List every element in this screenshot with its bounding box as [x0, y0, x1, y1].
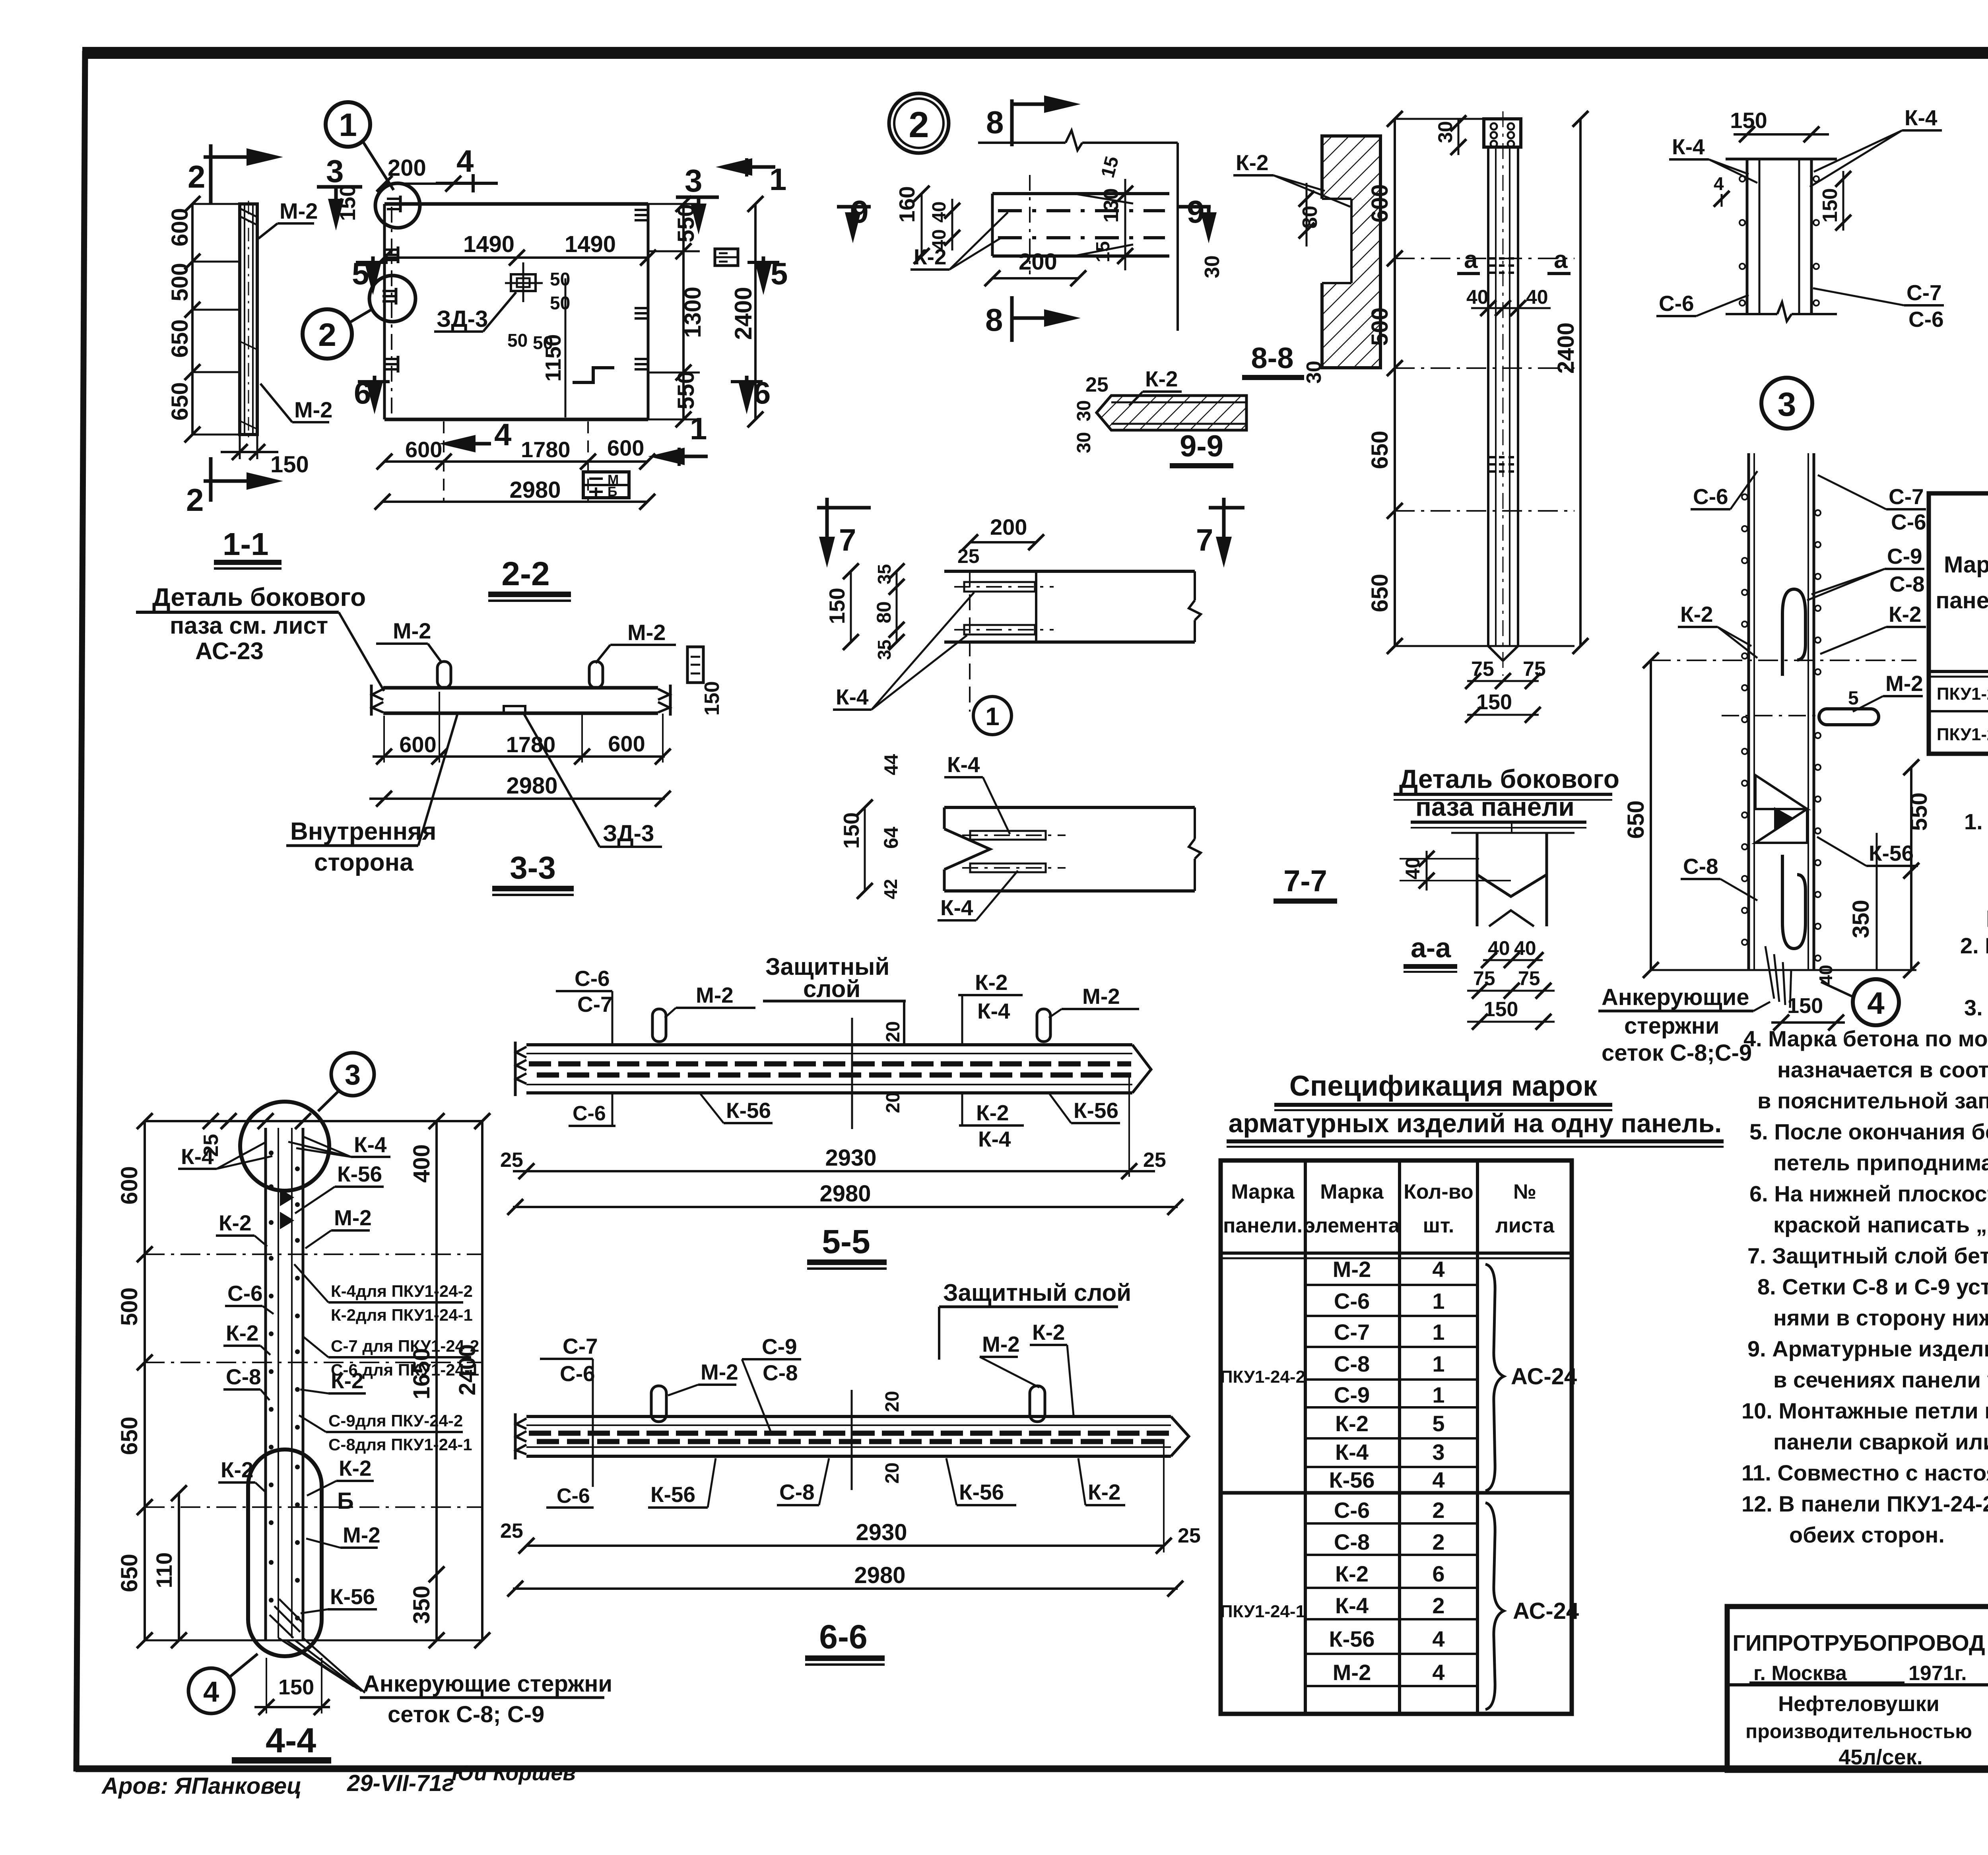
view 3-3 flag — [687, 647, 703, 683]
svg-text:45л/сек.: 45л/сек. — [1839, 1745, 1922, 1769]
view 4 centerline at loop — [1722, 715, 1819, 716]
title block left cell — [1727, 1630, 1988, 1769]
view 3-3 lifting loops M-2 — [437, 662, 451, 688]
section mark 6 left — [354, 375, 390, 414]
svg-text:4: 4 — [1432, 1660, 1444, 1685]
detail 3 dim 4 small — [1714, 173, 1730, 207]
svg-text:9. Арматурные изделия, расп: 9. Арматурные изделия, располагаемые в о… — [1747, 1336, 1988, 1361]
svg-text:500: 500 — [167, 263, 193, 301]
svg-text:3: 3 — [326, 153, 344, 189]
svg-text:К-2: К-2 — [1889, 602, 1921, 627]
svg-text:4: 4 — [1432, 1626, 1444, 1651]
svg-text:К-2: К-2 — [1145, 367, 1178, 391]
view 2-2 label ZD-3 — [434, 292, 516, 332]
svg-text:2930: 2930 — [856, 1519, 907, 1545]
svg-text:40: 40 — [929, 202, 950, 223]
svg-text:К-2: К-2 — [1236, 150, 1268, 175]
svg-text:С-6: С-6 — [1908, 307, 1944, 332]
svg-text:М-2: М-2 — [696, 983, 734, 1007]
svg-text:К-56: К-56 — [1329, 1467, 1375, 1492]
spec table brace group1 — [1485, 1264, 1504, 1491]
signatures — [101, 1761, 576, 1799]
view 6-6 labels below K-56 S-8 K-56 K-2 — [648, 1458, 716, 1508]
svg-text:6: 6 — [1432, 1561, 1444, 1586]
svg-text:паза панели: паза панели — [1415, 792, 1574, 821]
detail 3 label K-4 left — [1669, 134, 1757, 183]
svg-text:2: 2 — [188, 159, 206, 194]
view 4-4 label S-8 left — [223, 1364, 270, 1400]
view 3-3 label vnutrennyaya storona — [286, 715, 457, 876]
view 3-3 label M-2 right — [596, 620, 676, 663]
view 1-1 title — [214, 526, 282, 570]
svg-text:С-9: С-9 — [762, 1334, 797, 1359]
svg-text:в пояснительной записке.: в пояснительной записке. — [1757, 1088, 1988, 1113]
svg-text:Защитный слой: Защитный слой — [943, 1279, 1131, 1306]
view 4-4 label ankeruyushchie sterzhni — [360, 1671, 612, 1727]
svg-text:С-7: С-7 — [577, 992, 613, 1017]
svg-text:600: 600 — [167, 208, 193, 246]
callout circle 2 big double — [889, 93, 949, 153]
view 3-3 title — [492, 850, 574, 896]
view 3-3 heading detail bokovogo paza — [136, 583, 384, 691]
section mark 2 top — [188, 144, 283, 204]
svg-text:К-2: К-2 — [226, 1321, 258, 1345]
svg-text:К-56: К-56 — [726, 1098, 771, 1123]
svg-text:К-4: К-4 — [181, 1144, 214, 1169]
svg-text:АС-24: АС-24 — [1513, 1598, 1579, 1624]
svg-text:Марка: Марка — [1320, 1180, 1384, 1203]
view 4 dims 550 350 right — [1848, 759, 1932, 978]
svg-text:3-3: 3-3 — [510, 850, 556, 885]
view 4-4 label K-2 right 3 — [307, 1456, 374, 1496]
svg-text:1: 1 — [1432, 1288, 1444, 1314]
svg-text:обеих сторон.: обеих сторон. — [1789, 1522, 1945, 1547]
view 6-6 label M-2 right — [980, 1332, 1039, 1387]
svg-text:5-5: 5-5 — [822, 1223, 870, 1260]
svg-text:4: 4 — [1432, 1257, 1444, 1282]
callout circle 2 — [303, 309, 371, 359]
svg-text:8-8: 8-8 — [1251, 342, 1294, 374]
view 6-6 bar — [515, 1413, 1189, 1459]
svg-text:4-4: 4-4 — [266, 1721, 316, 1760]
view 5-5 lifting loops — [652, 1009, 666, 1042]
section mark 3 top-right — [676, 163, 719, 235]
svg-text:а: а — [1464, 246, 1478, 274]
center panel a dim 2400 — [1553, 111, 1588, 654]
view 1-1 bottom dim 150 — [221, 435, 309, 477]
svg-text:6-6: 6-6 — [819, 1618, 867, 1655]
svg-text:600: 600 — [1367, 184, 1393, 223]
view 4-4 label M-2 right — [305, 1205, 372, 1248]
svg-text:М-2: М-2 — [280, 198, 318, 223]
svg-text:150: 150 — [839, 812, 864, 849]
detail 3 label K-4 right — [1810, 105, 1942, 187]
view 4-4 panel strip — [266, 1128, 303, 1640]
spec table header — [1223, 1180, 1555, 1237]
svg-text:3: 3 — [1432, 1440, 1444, 1465]
view 4 labels S-9 S-8 — [1807, 544, 1925, 600]
svg-text:350: 350 — [1848, 900, 1874, 938]
view 4 label K-2 left — [1678, 602, 1757, 658]
svg-text:3: 3 — [345, 1059, 361, 1091]
svg-text:С-9: С-9 — [1334, 1382, 1370, 1407]
detail 7-7 label K-4 bottom — [938, 871, 1018, 920]
svg-text:С-8: С-8 — [1334, 1529, 1370, 1554]
view 2-2 flag box — [583, 472, 629, 499]
detail groove title a-a — [1404, 932, 1457, 973]
svg-text:С-6: С-6 — [1659, 291, 1694, 316]
view 2-2 dim 2980 — [375, 477, 655, 510]
svg-text:1: 1 — [690, 411, 707, 446]
svg-text:М-2: М-2 — [334, 1205, 372, 1230]
view 1-1 panel strip — [240, 201, 257, 437]
svg-text:600: 600 — [608, 731, 645, 756]
svg-text:К-2: К-2 — [976, 1100, 1009, 1125]
svg-text:2: 2 — [1432, 1593, 1444, 1618]
svg-text:М-2: М-2 — [982, 1332, 1020, 1356]
view 4-4 dim 2400 — [454, 1113, 490, 1648]
view 4 dim 650 left — [1623, 652, 1916, 978]
view 4-4 label S-7 dlya PKU — [302, 1336, 479, 1379]
svg-text:С-7: С-7 — [1334, 1319, 1370, 1345]
view 6-6 label K-2 upper — [1030, 1320, 1074, 1415]
view 4-4 callout circle 3 — [318, 1053, 374, 1111]
svg-text:С-6: С-6 — [557, 1484, 590, 1508]
detail 8-8 dims left 160 40 40 — [895, 186, 960, 264]
svg-text:650: 650 — [1367, 431, 1393, 469]
svg-text:сеток С-8; С-9: сеток С-8; С-9 — [388, 1702, 544, 1727]
view 4 labels S-7 S-6 top-right — [1818, 475, 1926, 534]
svg-text:Деталь бокового: Деталь бокового — [1399, 764, 1619, 794]
svg-text:650: 650 — [116, 1416, 142, 1455]
svg-text:М-2: М-2 — [294, 397, 332, 422]
svg-text:К-2: К-2 — [219, 1211, 251, 1235]
svg-text:панели.: панели. — [1936, 588, 1988, 613]
svg-text:С-6: С-6 — [1891, 510, 1926, 534]
svg-text:1: 1 — [985, 702, 1000, 731]
border frame left line — [76, 51, 85, 1772]
svg-text:С-6: С-6 — [1334, 1498, 1370, 1523]
view 4-4 label K-4 dlya PKU1-24-2 — [294, 1264, 473, 1324]
section mark 9 right — [1177, 194, 1217, 243]
svg-text:650: 650 — [1367, 574, 1393, 612]
view 2-2 dim 1150 — [541, 278, 565, 417]
view 4 tall panel rails — [1742, 453, 1821, 970]
detail 8-8 dim 200 — [984, 249, 1086, 286]
view 5-5 dim 2980 — [507, 1181, 1183, 1215]
svg-text:2980: 2980 — [854, 1562, 905, 1588]
view 4-4 dim 110 — [151, 1485, 187, 1648]
view 2-2 dim 1490 1490 — [377, 231, 656, 266]
svg-text:600: 600 — [399, 732, 436, 757]
svg-text:Внутренняя: Внутренняя — [290, 818, 436, 845]
svg-text:150: 150 — [825, 588, 849, 624]
svg-text:3: 3 — [685, 163, 703, 198]
spec table grid — [1221, 1160, 1572, 1714]
svg-text:арматурных изделий на одну: арматурных изделий на одну панель. — [1229, 1108, 1722, 1138]
center panel a bottom dims 75 75 150 — [1465, 658, 1546, 723]
svg-text:назначается в соответствии: назначается в соответствии с указаниями … — [1777, 1057, 1988, 1082]
svg-text:М-2: М-2 — [393, 618, 431, 643]
svg-text:а-а: а-а — [1411, 932, 1451, 963]
section mark 7 left — [817, 498, 871, 568]
detail 3 labels S-7 S-6 right — [1813, 280, 1944, 332]
svg-text:42: 42 — [880, 879, 901, 899]
svg-text:40: 40 — [1815, 965, 1836, 985]
section mark 1 top-right — [716, 158, 786, 197]
svg-text:29-VII-71г: 29-VII-71г — [347, 1770, 454, 1796]
svg-text:С-9для ПКУ-24-2: С-9для ПКУ-24-2 — [328, 1411, 463, 1430]
svg-text:10. Монтажные петли прихваты: 10. Монтажные петли прихватываются к вер… — [1741, 1398, 1988, 1423]
svg-text:ЗД-3: ЗД-3 — [437, 306, 488, 332]
view 2-2 step symbol — [573, 368, 614, 382]
svg-text:500: 500 — [1367, 307, 1393, 346]
view 5-5 label M-2 left — [665, 983, 755, 1018]
svg-text:К-56: К-56 — [330, 1584, 375, 1609]
svg-text:20: 20 — [883, 1092, 904, 1113]
svg-text:К-4: К-4 — [1905, 105, 1938, 130]
svg-text:35: 35 — [874, 564, 895, 584]
svg-text:листа: листа — [1495, 1214, 1555, 1237]
svg-text:М-2: М-2 — [1082, 984, 1120, 1009]
svg-text:650: 650 — [116, 1554, 142, 1592]
view 2-2 right dim chain 550 1300 550 — [648, 196, 706, 427]
svg-text:9: 9 — [1187, 194, 1205, 229]
section mark 3 top-left — [317, 153, 362, 231]
svg-text:30: 30 — [1074, 432, 1095, 453]
view 5-5 label M-2 right — [1049, 984, 1139, 1018]
section 8-8 strip label K-2 — [1233, 150, 1350, 207]
svg-text:2: 2 — [186, 482, 204, 518]
view 4-4 label K-2 left 3 — [218, 1457, 266, 1493]
center panel a body — [1488, 111, 1518, 676]
svg-text:нями в сторону нижнего: нями в сторону нижнего торца панели. — [1773, 1305, 1988, 1330]
svg-text:слой: слой — [803, 976, 860, 1002]
svg-text:Аров: ЯПанковец: Аров: ЯПанковец — [101, 1773, 302, 1799]
view 4-4 anchor fan — [278, 1638, 365, 1693]
svg-text:С-8: С-8 — [1334, 1351, 1370, 1376]
view 6-6 title — [805, 1618, 885, 1666]
svg-text:Марка: Марка — [1231, 1180, 1295, 1203]
svg-text:50: 50 — [550, 293, 570, 313]
title 9-9 — [1170, 429, 1233, 468]
view 2-2 panel outline — [384, 204, 648, 419]
svg-text:АС-24: АС-24 — [1511, 1364, 1577, 1389]
svg-text:К-56: К-56 — [650, 1482, 695, 1507]
svg-text:К-2: К-2 — [221, 1457, 253, 1482]
detail groove dims 40 40 75 75 150 — [1467, 937, 1555, 1030]
svg-text:ПКУ1-24-2: ПКУ1-24-2 — [1220, 1367, 1305, 1387]
section mark 8 top — [986, 95, 1081, 146]
view 2-2 groove symbols — [384, 246, 398, 263]
svg-text:1780: 1780 — [521, 437, 571, 462]
svg-text:М-2: М-2 — [701, 1360, 738, 1384]
svg-text:петель приподнимаются и пове: петель приподнимаются и поверхность бето… — [1773, 1150, 1988, 1175]
table vyborka grid — [1929, 493, 1988, 754]
view 5-5 label K-2 K-4 lower — [959, 1094, 1024, 1151]
svg-text:130: 130 — [1100, 188, 1123, 223]
svg-text:1300: 1300 — [680, 287, 706, 338]
svg-text:1: 1 — [1432, 1382, 1444, 1407]
svg-text:1: 1 — [1432, 1351, 1444, 1376]
svg-text:40: 40 — [1488, 937, 1510, 959]
svg-text:панели.: панели. — [1223, 1214, 1303, 1237]
center panel a top plate — [1484, 119, 1521, 147]
view 4 upper hook — [1782, 589, 1806, 676]
svg-text:2: 2 — [1432, 1529, 1444, 1554]
section mark 7 right — [1196, 498, 1244, 568]
svg-text:С-6: С-6 — [1693, 484, 1728, 509]
view 6-6 dim 2980 — [507, 1562, 1183, 1597]
detail 8-8 label K-2 — [911, 212, 1008, 270]
svg-text:К-2для ПКУ1-24-1: К-2для ПКУ1-24-1 — [331, 1306, 473, 1324]
section mark 8 bottom — [985, 296, 1081, 342]
view 3-3 dim 600 1780 600 — [373, 692, 671, 765]
view 4 truss braces — [1755, 775, 1807, 843]
view 3-3 label ZD-3 — [524, 714, 662, 847]
svg-text:25: 25 — [957, 545, 980, 567]
svg-text:а: а — [1554, 246, 1568, 274]
view 4-4 label K-2 left — [216, 1211, 267, 1246]
svg-text:25: 25 — [500, 1519, 523, 1543]
svg-text:64: 64 — [880, 827, 902, 849]
svg-text:150: 150 — [278, 1675, 314, 1699]
svg-text:2980: 2980 — [819, 1181, 871, 1207]
view 4-4 left dim chain — [116, 1113, 482, 1648]
view 6-6 label S-9 S-8 — [742, 1334, 801, 1431]
svg-text:4: 4 — [456, 144, 474, 179]
svg-text:К-2: К-2 — [339, 1456, 371, 1481]
svg-text:рению Гасстроем СССР в 19: рению Гасстроем СССР в 1971 году. — [1986, 902, 1988, 927]
svg-text:600: 600 — [405, 437, 442, 462]
svg-text:К-2: К-2 — [1335, 1411, 1369, 1436]
svg-text:150: 150 — [335, 184, 360, 221]
view 6-6 lifting loops — [651, 1386, 666, 1422]
svg-text:3. Закладную деталь марки ЗД-: 3. Закладную деталь марки ЗД-3 см. на ли… — [1964, 995, 1988, 1020]
svg-text:К-2: К-2 — [1088, 1480, 1120, 1504]
view 2-2 flag box 2 — [715, 249, 738, 266]
view 4-4 capsule detail outline — [248, 1449, 322, 1656]
svg-text:7-7: 7-7 — [1283, 864, 1327, 898]
svg-text:200: 200 — [388, 155, 426, 181]
svg-text:К-2: К-2 — [1680, 602, 1713, 627]
svg-text:К-2: К-2 — [975, 970, 1008, 995]
view 4-4 label M-2 right 2 — [306, 1523, 381, 1548]
svg-text:50: 50 — [550, 269, 570, 289]
svg-text:150: 150 — [701, 681, 724, 716]
view 5-5 label K-56 left — [701, 1094, 773, 1123]
view 4 label S-8 lower-left — [1681, 854, 1757, 900]
svg-text:150: 150 — [1730, 108, 1767, 133]
detail 3 posts — [1726, 159, 1837, 321]
svg-text:ПКУ1-24-2: ПКУ1-24-2 — [1937, 684, 1988, 704]
callout circle 1 — [326, 102, 394, 190]
view 6-6 label zashchitny sloy — [939, 1279, 1131, 1360]
svg-text:панели сваркой или привязы: панели сваркой или привязываются проволо… — [1773, 1429, 1988, 1454]
svg-text:шт.: шт. — [1423, 1214, 1454, 1237]
section 8-8 strip dims — [1201, 183, 1326, 384]
callout circle 4 right — [1821, 979, 1899, 1025]
svg-text:К-56: К-56 — [1329, 1626, 1375, 1651]
svg-text:АС-23: АС-23 — [195, 638, 264, 664]
view 5-5 title — [807, 1223, 887, 1270]
section mark 1 bottom-right — [648, 411, 708, 466]
view 6-6 labels S-7 S-6 left end — [540, 1334, 598, 1508]
section mark 5 left — [352, 256, 388, 295]
svg-text:К-2: К-2 — [914, 244, 946, 269]
svg-text:550: 550 — [673, 371, 699, 409]
detail 7-7 label K-4 — [833, 592, 974, 710]
svg-text:3: 3 — [1778, 386, 1796, 423]
svg-text:550: 550 — [1906, 792, 1932, 831]
view 5-5 label K-56 right — [1050, 1094, 1120, 1123]
svg-text:С-7: С-7 — [1906, 280, 1942, 305]
svg-text:в сечениях панели услов: в сечениях панели условно раздвинуты. — [1773, 1367, 1988, 1392]
view 5-5 dim 2930 — [500, 1073, 1166, 1179]
svg-text:1971г.: 1971г. — [1908, 1662, 1967, 1685]
view 5-5 label K-2 K-4 upper — [958, 970, 1023, 1044]
view 4 lower hook — [1782, 855, 1806, 949]
svg-text:Анкерующие: Анкерующие — [1602, 984, 1749, 1010]
spec table brace group2 — [1485, 1503, 1504, 1709]
svg-text:ПКУ1-24-1: ПКУ1-24-1 — [1220, 1602, 1305, 1621]
svg-text:7: 7 — [1196, 522, 1213, 557]
view 2-2 dim 2400 — [730, 196, 763, 427]
svg-text:2980: 2980 — [509, 477, 561, 503]
svg-text:Б: Б — [337, 1488, 354, 1514]
svg-text:сеток С-8;С-9: сеток С-8;С-9 — [1602, 1040, 1752, 1066]
table vyborka header texts — [1936, 501, 1988, 665]
svg-text:4: 4 — [1714, 173, 1724, 194]
callout circle 3 — [1761, 378, 1812, 429]
svg-text:650: 650 — [167, 382, 193, 421]
view 2-2 dim 200 top — [377, 155, 461, 192]
svg-text:80: 80 — [873, 601, 895, 623]
svg-text:2. Нумерация арматурных сет: 2. Нумерация арматурных сеток, каркасов — [1960, 933, 1988, 958]
view 5-5 dims 20 20 — [852, 1018, 904, 1129]
svg-text:20: 20 — [883, 1021, 904, 1042]
svg-text:8: 8 — [986, 105, 1004, 140]
view 4-4 top dim line — [145, 1113, 490, 1157]
svg-text:8. Сетки С-8 и С-9 устанав: 8. Сетки С-8 и С-9 устанавливаются анкер… — [1757, 1274, 1988, 1299]
svg-text:Б: Б — [608, 484, 617, 499]
svg-text:К-4: К-4 — [1335, 1440, 1369, 1465]
spec table rows group1 — [1329, 1257, 1444, 1492]
svg-text:№: № — [1513, 1180, 1536, 1203]
svg-text:М-2: М-2 — [627, 620, 666, 645]
svg-text:М-2: М-2 — [1333, 1660, 1371, 1685]
view 4 dim 150 bottom — [1771, 994, 1845, 1030]
view 5-5 label S-6 below — [569, 1094, 615, 1126]
view 4-4 label S-9 dlya PKU — [299, 1411, 472, 1454]
svg-text:650: 650 — [1623, 800, 1649, 839]
svg-text:1. Для составления листов АС: 1. Для составления листов АС-23, АС-24 и… — [1964, 809, 1988, 834]
section 8-8 hatched strip — [1320, 136, 1380, 368]
svg-text:К-56: К-56 — [959, 1480, 1004, 1504]
svg-text:К-4: К-4 — [1672, 134, 1705, 159]
view 4-4 dim 1650 and 350 — [409, 1254, 445, 1648]
svg-text:35: 35 — [874, 640, 895, 660]
svg-text:600: 600 — [116, 1166, 142, 1205]
svg-text:С-8: С-8 — [1889, 572, 1925, 596]
svg-text:К-4для ПКУ1-24-2: К-4для ПКУ1-24-2 — [331, 1282, 473, 1300]
table vyborka data — [1937, 675, 1988, 745]
detail 7-7 upper plate — [825, 514, 1201, 712]
svg-text:С-7: С-7 — [1889, 484, 1924, 509]
svg-text:1490: 1490 — [463, 231, 514, 257]
section 9-9 hatched bar — [1097, 396, 1246, 430]
detail circle at panel corner — [375, 183, 420, 228]
